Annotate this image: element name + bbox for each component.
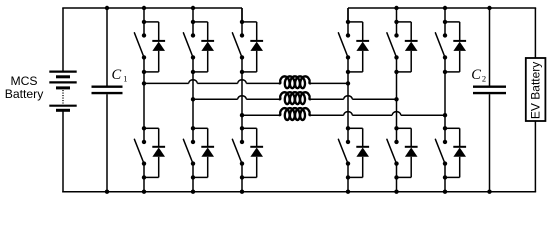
half-bridge leg left phase 3: lower cell (241, 177, 243, 191)
node: cell top junction (346, 20, 350, 24)
node: cell bottom junction (443, 70, 447, 74)
wire: cell branch split node to diode branch (397, 128, 412, 147)
half-bridge leg left phase 1: lower cell (143, 177, 145, 191)
wire crossover hop at x=193 on phase 1 link (left) (189, 80, 198, 84)
half-bridge leg right phase 3: upper cell (444, 8, 446, 22)
switch S6 (ideal switch, open) (232, 128, 244, 177)
svg-text:1: 1 (123, 74, 127, 84)
half-bridge leg left phase 2: upper cell (192, 8, 194, 22)
switch S5 (ideal switch, open) (232, 22, 244, 72)
wire: left phase 3 midpoint vertical (241, 72, 243, 128)
wire: cell branch split node to diode branch (193, 22, 208, 41)
switch S2 (ideal switch, open) (134, 128, 146, 177)
node: cell top junction (394, 126, 398, 130)
node: C2 to bottom rail (487, 190, 491, 194)
wire: right DC+ rail (right bridge top to EV battery +) (348, 8, 536, 58)
switch S8 (ideal switch, open) (338, 128, 350, 177)
wire: phase 1 link (left) (144, 82, 280, 84)
node: left phase 3 to bottom rail (240, 190, 244, 194)
node: right phase 3 to top rail (443, 6, 447, 10)
svg-text:C: C (112, 67, 122, 83)
node: right phase 1 to bottom rail (346, 190, 350, 194)
wire: right phase 1 midpoint vertical (347, 72, 349, 128)
wire: left phase 1 midpoint vertical (143, 72, 145, 128)
half-bridge leg right phase 2: upper cell (396, 8, 398, 22)
node: cell bottom junction (142, 70, 146, 74)
diode D6 (antiparallel, cathode up) (250, 147, 263, 178)
wire: diode branch rejoin (242, 71, 257, 73)
wire crossover hop at x=348 on phase 3 link (right) (344, 112, 353, 116)
inductor L1 (280, 76, 311, 88)
capacitor C2 (right DC-link) (473, 8, 506, 192)
wire: diode branch rejoin (445, 176, 460, 178)
inductor L2 (280, 92, 311, 104)
wire: diode branch rejoin (445, 71, 460, 73)
node: cell top junction (443, 20, 447, 24)
node: cell bottom junction (346, 175, 350, 179)
diode D12 (antiparallel, cathode up) (453, 147, 466, 178)
diode D9 (antiparallel, cathode up) (405, 41, 418, 72)
node: cell bottom junction (394, 175, 398, 179)
node: phase 2 tap right bridge (394, 97, 398, 101)
node: right phase 2 to top rail (394, 6, 398, 10)
wire: left DC+ rail (battery + to left bridge top) (62, 8, 242, 72)
node: C1 to bottom rail (105, 190, 109, 194)
node: right phase 3 to bottom rail (443, 190, 447, 194)
switch S9 (ideal switch, open) (387, 22, 399, 72)
node: cell bottom junction (240, 70, 244, 74)
diode D1 (antiparallel, cathode up) (152, 41, 165, 72)
node: C2 to top rail (487, 6, 491, 10)
wire: cell branch split node to diode branch (348, 128, 363, 147)
node: C1 to top rail (105, 6, 109, 10)
wire: cell branch split node to diode branch (144, 22, 159, 41)
node: phase 2 tap left bridge (191, 97, 195, 101)
node: left phase 1 to top rail (142, 6, 146, 10)
half-bridge leg right phase 3: lower cell (444, 177, 446, 191)
switch S7 (ideal switch, open) (338, 22, 350, 72)
wire: cell branch split node to diode branch (242, 22, 257, 41)
wire: diode branch rejoin (144, 176, 159, 178)
switch S1 (ideal switch, open) (134, 22, 146, 72)
wire: phase 2 link (left) (193, 98, 280, 100)
wire: common DC- bottom rail (62, 110, 536, 192)
svg-text:2: 2 (482, 74, 486, 84)
wire crossover hop at x=242 on phase 2 link (left) (238, 96, 247, 100)
half-bridge leg right phase 2: lower cell (396, 177, 398, 191)
diode D10 (antiparallel, cathode up) (405, 147, 418, 178)
node: cell top junction (443, 126, 447, 130)
half-bridge leg left phase 3: upper cell (241, 8, 243, 22)
diode D3 (antiparallel, cathode up) (201, 41, 214, 72)
wire: phase 3 link (right) (310, 114, 445, 116)
half-bridge leg right phase 1: upper cell (347, 8, 349, 22)
svg-text:MCS: MCS (10, 74, 37, 88)
diode D11 (antiparallel, cathode up) (453, 41, 466, 72)
node: cell top junction (394, 20, 398, 24)
wire: cell branch split node to diode branch (242, 128, 257, 147)
wire crossover hop at x=396.5 on phase 3 link (right) (392, 112, 401, 116)
node: left phase 2 to bottom rail (191, 190, 195, 194)
switch S12 (ideal switch, open) (435, 128, 447, 177)
diode D5 (antiparallel, cathode up) (250, 41, 263, 72)
node: cell bottom junction (191, 70, 195, 74)
wire: cell branch split node to diode branch (445, 128, 460, 147)
node: phase 3 tap left bridge (240, 113, 244, 117)
node: cell bottom junction (240, 175, 244, 179)
node: cell top junction (191, 126, 195, 130)
node: cell top junction (191, 20, 195, 24)
wire: cell branch split node to diode branch (445, 22, 460, 41)
diode D8 (antiparallel, cathode up) (356, 147, 369, 178)
half-bridge leg left phase 2: lower cell (192, 177, 194, 191)
node: cell top junction (240, 126, 244, 130)
wire crossover hop at x=242 on phase 1 link (left) (238, 80, 247, 84)
diode D2 (antiparallel, cathode up) (152, 147, 165, 178)
node: cell bottom junction (142, 175, 146, 179)
node: phase 1 tap left bridge (142, 81, 146, 85)
wire: phase 1 link (right) (310, 82, 348, 84)
wire: cell branch split node to diode branch (144, 128, 159, 147)
wire: diode branch rejoin (242, 176, 257, 178)
diode D4 (antiparallel, cathode up) (201, 147, 214, 178)
node: cell bottom junction (191, 175, 195, 179)
node: left phase 1 to bottom rail (142, 190, 146, 194)
half-bridge leg right phase 1: lower cell (347, 177, 349, 191)
node: cell top junction (142, 20, 146, 24)
svg-text:Battery: Battery (5, 87, 45, 101)
wire: right phase 2 midpoint vertical (396, 72, 398, 128)
capacitor C1 (left DC-link) (92, 8, 123, 192)
node: phase 1 tap right bridge (346, 81, 350, 85)
node: cell bottom junction (346, 70, 350, 74)
wire: phase 2 link (right) (310, 98, 396, 100)
wire: diode branch rejoin (397, 71, 412, 73)
node: cell top junction (346, 126, 350, 130)
wire: phase 3 link (left) (242, 114, 280, 116)
wire: diode branch rejoin (348, 176, 363, 178)
wire crossover hop at x=348 on phase 2 link (right) (344, 96, 353, 100)
switch S4 (ideal switch, open) (183, 128, 195, 177)
node: phase 3 tap right bridge (443, 113, 447, 117)
wire: diode branch rejoin (193, 71, 208, 73)
node: cell top junction (142, 126, 146, 130)
node: cell bottom junction (443, 175, 447, 179)
inductor L3 (280, 108, 311, 120)
switch S3 (ideal switch, open) (183, 22, 195, 72)
switch S11 (ideal switch, open) (435, 22, 447, 72)
wire: diode branch rejoin (348, 71, 363, 73)
wire: cell branch split node to diode branch (348, 22, 363, 41)
node: right phase 2 to bottom rail (394, 190, 398, 194)
wire: diode branch rejoin (193, 176, 208, 178)
wire: right phase 3 midpoint vertical (444, 72, 446, 128)
wire: diode branch rejoin (397, 176, 412, 178)
node: cell top junction (240, 20, 244, 24)
svg-text:C: C (471, 67, 481, 83)
node: cell bottom junction (394, 70, 398, 74)
node: left phase 2 to top rail (191, 6, 195, 10)
svg-text:EV Battery: EV Battery (529, 62, 543, 119)
wire: left phase 2 midpoint vertical (192, 72, 194, 128)
wire: cell branch split node to diode branch (193, 128, 208, 147)
MCS battery symbol (multi-cell) (49, 72, 76, 111)
wire: diode branch rejoin (144, 71, 159, 73)
diode D7 (antiparallel, cathode up) (356, 41, 369, 72)
switch S10 (ideal switch, open) (387, 128, 399, 177)
half-bridge leg left phase 1: upper cell (143, 8, 145, 22)
EV battery (boxed) (526, 58, 546, 121)
wire: cell branch split node to diode branch (397, 22, 412, 41)
